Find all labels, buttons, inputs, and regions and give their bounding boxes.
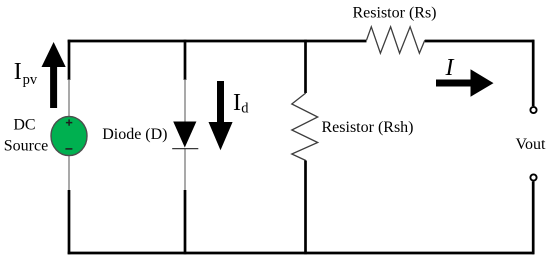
svg-text:d: d (241, 101, 249, 117)
svg-text:DC: DC (13, 117, 35, 134)
svg-text:Diode (D): Diode (D) (102, 126, 167, 143)
svg-text:Source: Source (4, 138, 48, 155)
svg-text:Resistor (Rs): Resistor (Rs) (353, 5, 437, 22)
svg-text:pv: pv (23, 72, 38, 88)
svg-text:Resistor (Rsh): Resistor (Rsh) (322, 119, 414, 136)
svg-text:Vout: Vout (516, 136, 546, 153)
svg-text:I: I (14, 59, 22, 85)
svg-text:I: I (445, 55, 455, 81)
svg-text:I: I (233, 90, 241, 116)
